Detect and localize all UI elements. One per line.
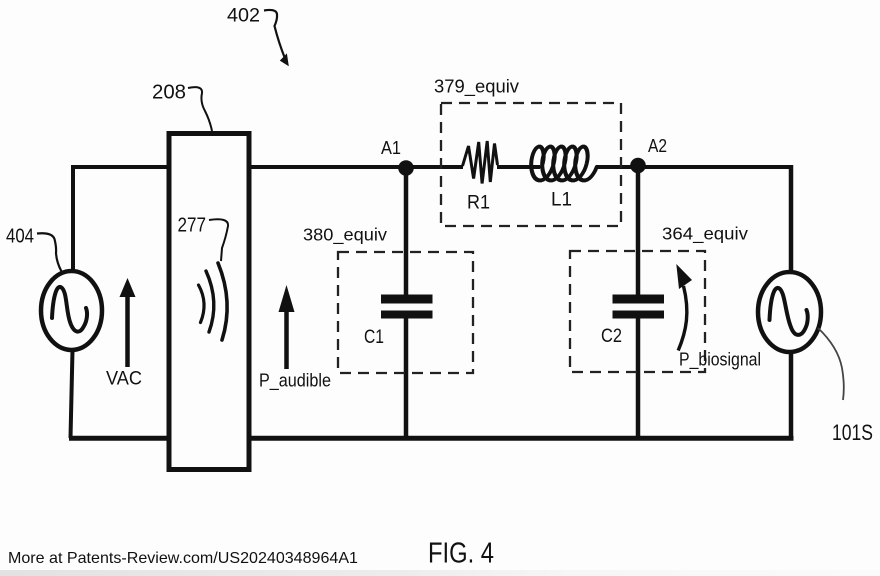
dashed box 380_equiv [338, 252, 473, 373]
wire right vertical upper [789, 165, 794, 274]
wire left vertical lower [71, 350, 73, 438]
wire R1 to L1 [497, 165, 540, 169]
capacitor C2 [613, 295, 665, 304]
svg-text:364_equiv: 364_equiv [662, 224, 748, 245]
node A2 [630, 158, 646, 174]
svg-text:FIG. 4: FIG. 4 [428, 538, 494, 570]
svg-text:R1: R1 [467, 193, 490, 214]
AC source 101S (right) [758, 272, 821, 352]
resistor R1 [463, 141, 498, 184]
node A1 [398, 160, 414, 176]
wire top middle (transducer to A1 to R1) [249, 165, 463, 169]
leader 277 [209, 219, 228, 261]
svg-text:379_equiv: 379_equiv [434, 77, 519, 98]
svg-text:P_biosignal: P_biosignal [679, 350, 761, 371]
wire C1 branch vertical upper [404, 168, 409, 296]
wire bottom horizontal [69, 436, 794, 441]
wire left vertical upper [71, 165, 75, 272]
inductor L1 [529, 147, 600, 181]
arrow VAC [125, 294, 130, 367]
wire top-left horizontal [71, 165, 171, 169]
svg-text:P_audible: P_audible [259, 371, 331, 392]
wire L1 to A2 to right corner [596, 165, 791, 169]
svg-text:A1: A1 [381, 138, 401, 158]
leader 101S [818, 328, 844, 400]
leader 402 [264, 10, 285, 59]
svg-text:404: 404 [6, 226, 34, 248]
svg-text:277: 277 [178, 215, 207, 237]
svg-text:VAC: VAC [106, 369, 142, 390]
wire C2 branch vertical lower [636, 317, 641, 437]
wire right vertical lower [789, 352, 794, 439]
svg-text:More at Patents-Review.com/US2: More at Patents-Review.com/US20240348964… [8, 550, 358, 567]
transducer block 208 [169, 134, 249, 470]
svg-text:101S: 101S [832, 420, 873, 445]
svg-text:A2: A2 [648, 136, 667, 156]
bottom gray bar [0, 570, 880, 576]
wire C2 branch vertical upper [636, 166, 641, 296]
leader 404 [37, 233, 62, 271]
AC source 404 (left) [41, 271, 102, 350]
svg-text:380_equiv: 380_equiv [303, 225, 387, 246]
svg-text:402: 402 [227, 5, 260, 27]
capacitor C1 [381, 295, 433, 304]
dashed box 364_equiv [570, 251, 705, 372]
arrow P_biosignal (curved) [678, 286, 687, 351]
svg-text:L1: L1 [551, 190, 572, 211]
arrow P_audible [284, 308, 289, 369]
svg-text:C1: C1 [364, 327, 384, 348]
dashed box 379_equiv [441, 103, 621, 226]
svg-text:C2: C2 [601, 326, 622, 347]
svg-text:208: 208 [152, 82, 186, 104]
leader 208 [188, 87, 212, 131]
wire C1 branch vertical lower [404, 317, 409, 437]
sound arcs 277 [199, 285, 205, 323]
